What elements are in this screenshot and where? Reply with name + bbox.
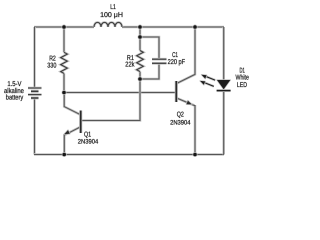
wire C1 top branch xyxy=(140,37,159,59)
battery B1 short plate (- cell 2) xyxy=(31,97,39,100)
junction dot top rail / Q2 collector xyxy=(193,25,198,30)
resistor R2 xyxy=(61,52,68,73)
svg-text:22k: 22k xyxy=(125,61,135,69)
junction dot bottom rail / Q2 emitter xyxy=(193,152,198,157)
junction dot bottom rail / Q1 emitter xyxy=(62,152,67,157)
svg-text:C1: C1 xyxy=(172,52,178,59)
wire Q2 emitter lead xyxy=(177,98,195,155)
svg-text:2N3904: 2N3904 xyxy=(78,139,99,146)
transistor Q2 emitter arrowhead xyxy=(186,101,191,105)
transistor Q2 base bar xyxy=(175,81,178,102)
wire R2 top lead xyxy=(63,27,66,52)
wire C1 bottom branch xyxy=(140,64,159,80)
wire Q1 collector lead xyxy=(64,93,80,115)
svg-text:R2: R2 xyxy=(49,55,56,62)
LED D1 emission arrow 1 shaft xyxy=(204,76,216,81)
wire node B horizontal (R2 / Q1 collector to Q2 base) xyxy=(64,91,176,94)
resistor R1 xyxy=(137,51,144,72)
wire bottom rail xyxy=(34,153,224,156)
battery B1 short plate (- cell 1) xyxy=(31,90,39,93)
svg-text:L1: L1 xyxy=(110,4,116,11)
wire right rail upper (LED anode) xyxy=(222,27,225,80)
wire node A vertical to Q1 base xyxy=(81,79,140,121)
LED D1 emission arrow 2 shaft xyxy=(202,82,214,87)
wire R2 bottom lead xyxy=(63,73,66,92)
wire Q2 collector lead xyxy=(177,27,195,84)
junction dot top rail / R2 xyxy=(62,25,67,30)
svg-text:Q2: Q2 xyxy=(177,112,184,119)
junction dot R1/C1 bottom node A xyxy=(138,77,143,82)
svg-text:100 μH: 100 μH xyxy=(100,12,123,19)
battery B1 long plate (+ cell 1) xyxy=(28,87,42,90)
junction dot node B (R2 / Q1 collector / Q2 base) xyxy=(62,90,67,95)
battery B1 long plate (+ cell 2) xyxy=(28,93,42,96)
wire right rail lower (LED cathode) xyxy=(222,91,225,155)
junction dot top rail / R1C1 xyxy=(138,25,143,30)
svg-text:220 pF: 220 pF xyxy=(168,59,186,66)
wire left rail upper (battery +) xyxy=(33,27,36,88)
wire R1 top lead xyxy=(139,27,142,51)
transistor Q1 base bar xyxy=(79,111,82,134)
svg-text:2N3904: 2N3904 xyxy=(170,120,191,127)
LED D1 triangle xyxy=(217,80,230,89)
inductor L1 xyxy=(94,22,122,27)
svg-text:LED: LED xyxy=(237,82,247,89)
capacitor C1 top plate xyxy=(152,58,167,61)
wire R1 bottom lead xyxy=(139,72,142,79)
svg-text:White: White xyxy=(236,74,249,82)
wire top rail left segment xyxy=(34,26,94,29)
svg-text:Q1: Q1 xyxy=(84,131,91,138)
LED D1 emission arrow 2 head xyxy=(200,81,205,85)
LED D1 emission arrow 1 head xyxy=(202,75,207,79)
junction dot R1/C1 top node xyxy=(138,35,143,40)
svg-text:battery: battery xyxy=(6,94,24,102)
wire top rail right segment xyxy=(122,26,224,29)
wire left rail lower (battery -) xyxy=(33,98,36,155)
wire Q1 emitter lead xyxy=(64,127,80,155)
svg-text:330: 330 xyxy=(47,62,56,69)
svg-text:D1: D1 xyxy=(240,68,245,75)
capacitor C1 bottom plate xyxy=(152,62,167,65)
transistor Q1 emitter arrowhead xyxy=(64,130,70,134)
LED D1 cathode bar xyxy=(217,89,231,92)
